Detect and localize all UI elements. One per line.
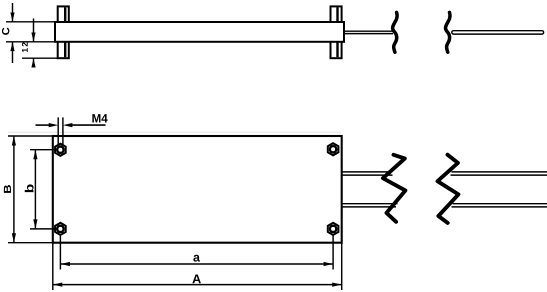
housing rectangle (plan view) bbox=[53, 136, 342, 243]
wire lead 2 right segment (plan) bbox=[452, 204, 547, 207]
extension line hole bottom-left down bbox=[59, 235, 61, 270]
wire lead left segment (side view) bbox=[344, 31, 393, 33]
left mounting tab (slotted lug) bbox=[58, 6, 69, 58]
right mounting tab (slotted lug) bbox=[331, 6, 342, 58]
break squiggle 2 (side view) bbox=[445, 12, 450, 52]
dimension b line + arrows bbox=[33, 150, 37, 229]
label 12 bbox=[22, 42, 28, 52]
extension line rect left edge down bbox=[52, 243, 54, 290]
break squiggle 1 (side view) bbox=[393, 12, 398, 52]
wire lead 1 left segment (plan) bbox=[342, 172, 393, 175]
extension line body top bbox=[6, 21, 55, 23]
label b bbox=[25, 184, 34, 192]
resistor body (side view) bbox=[55, 22, 344, 42]
extension line body bottom bbox=[6, 41, 55, 43]
label a bbox=[193, 255, 200, 262]
extension line rect right edge down bbox=[341, 243, 343, 290]
hex nut top-right bbox=[328, 143, 339, 155]
dimension A line + arrows bbox=[53, 283, 342, 287]
faint guide line bbox=[8, 131, 341, 133]
break zigzag 2 (plan) bbox=[438, 155, 459, 223]
break zigzag 1 (plan) bbox=[383, 155, 406, 222]
wire lead right segment with tip (side view) bbox=[452, 31, 544, 34]
label A bbox=[192, 275, 201, 284]
label C bbox=[2, 28, 9, 35]
dimension B line + arrows bbox=[12, 136, 16, 243]
extension line rect bottom (left) bbox=[8, 242, 53, 244]
dimension C line + arrows bbox=[10, 3, 14, 63]
hex nut bottom-right bbox=[328, 223, 339, 235]
extension line hole bottom-left center bbox=[30, 228, 58, 230]
label B bbox=[4, 185, 11, 193]
extension line tab bottom bbox=[22, 57, 58, 59]
hex nut top-left bbox=[55, 144, 66, 156]
extension line hole bottom-right down bbox=[332, 235, 334, 270]
label M4 bbox=[92, 114, 107, 122]
wire lead 2 left segment (plan) bbox=[342, 204, 398, 207]
M4 thread extension lines bbox=[58, 117, 63, 146]
dimension M4 bbox=[36, 123, 106, 127]
extension line hole top-left center bbox=[30, 149, 58, 151]
dimension a line + arrows bbox=[60, 262, 333, 266]
dimension 12 line + arrows bbox=[31, 19, 35, 68]
wire lead 1 right segment (plan) bbox=[451, 172, 547, 175]
extension line rect top (left) bbox=[8, 135, 53, 137]
hex nut bottom-left bbox=[55, 223, 66, 235]
